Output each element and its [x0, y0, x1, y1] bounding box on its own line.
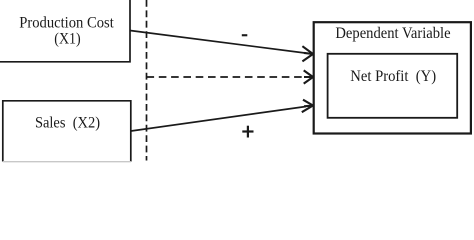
svg-text:Net Profit (Y): Net Profit (Y)	[350, 68, 436, 85]
dashed arrow to Dependent Variable	[147, 70, 314, 83]
svg-text:Production Cost: Production Cost	[19, 15, 114, 32]
box Net Profit (Y) (inner)	[328, 54, 458, 118]
label Production Cost (X1)	[19, 15, 114, 48]
label minus	[242, 34, 248, 36]
box Dependent Variable (outer)	[314, 22, 471, 133]
label Dependent Variable	[335, 25, 450, 42]
label plus	[242, 126, 253, 138]
label Sales (X2)	[35, 115, 100, 132]
svg-text:Sales (X2): Sales (X2)	[35, 115, 100, 132]
box Production Cost (X1)	[0, 0, 130, 62]
dashed vertical line	[146, 0, 148, 161]
box Sales (X2)	[3, 101, 131, 162]
svg-text:Dependent Variable: Dependent Variable	[335, 25, 450, 42]
arrow Production Cost to Dependent Variable	[130, 31, 313, 62]
svg-text:(X1): (X1)	[54, 31, 80, 48]
arrow Sales to Dependent Variable	[131, 100, 313, 131]
label Net Profit (Y)	[350, 68, 436, 85]
